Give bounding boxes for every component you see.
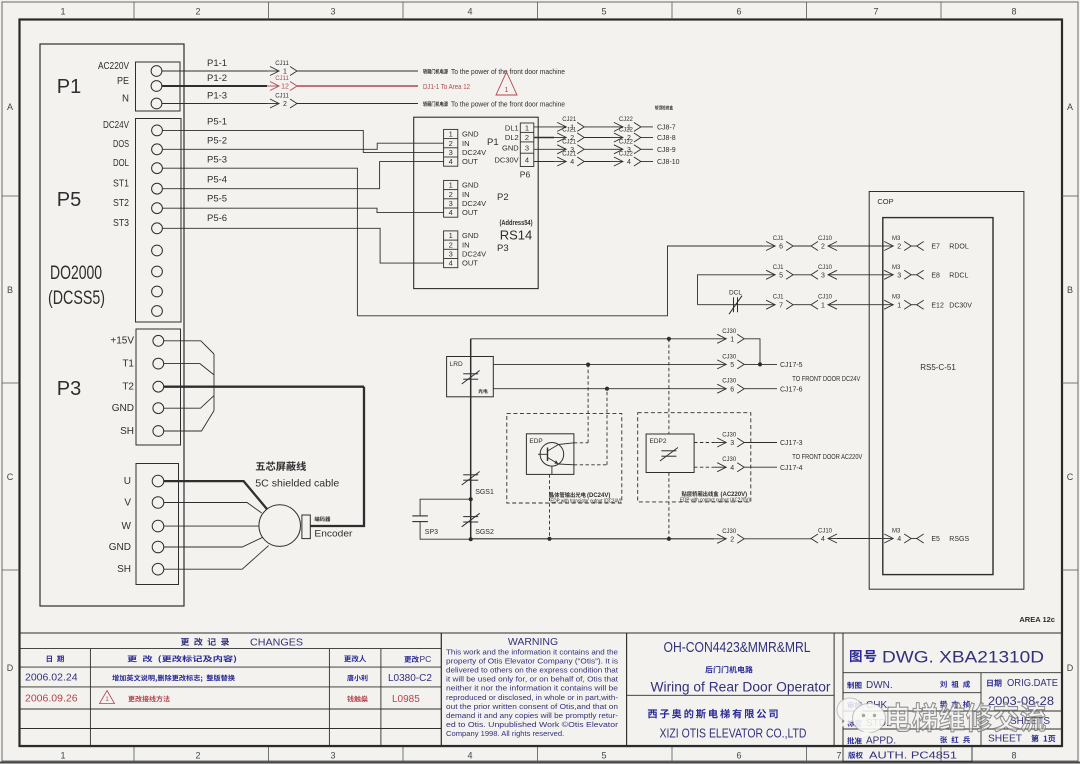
- changes row2 date: [25, 693, 78, 705]
- dwg auth text: [848, 752, 863, 759]
- wire P1-3 to text: [297, 103, 418, 105]
- changes row2 person: [347, 696, 368, 703]
- svg-text:2: 2: [730, 536, 734, 543]
- svg-text:CJ21: CJ21: [562, 128, 577, 134]
- title cell divider: [627, 694, 835, 696]
- svg-text:L0985: L0985: [392, 694, 420, 705]
- label CJ8-10: [657, 159, 680, 166]
- connector CJ21 pin4: [554, 152, 584, 167]
- label E7: [931, 244, 940, 251]
- label P1-1: [207, 58, 227, 69]
- svg-text:C: C: [7, 472, 14, 482]
- changes col header 日期: [47, 655, 64, 662]
- label P5-1: [207, 117, 227, 128]
- junction dot EDP2 bottom: [667, 537, 671, 541]
- svg-text:CJ30: CJ30: [722, 379, 737, 385]
- wire CJ10 to M3 row E7: [837, 245, 881, 247]
- wire CJ1-CJ10 row E12: [793, 304, 811, 306]
- terminal circle P5 spare: [152, 286, 163, 297]
- svg-text:EDP with contact output (AC220: EDP with contact output (AC220V): [680, 498, 750, 504]
- svg-text:SHEET: SHEET: [988, 734, 1022, 745]
- RS14 label P2: [497, 192, 509, 203]
- cable bundle +15V: [164, 341, 214, 354]
- side border zone ticks: [2, 196, 1078, 570]
- connector M3 pin4: [881, 529, 911, 544]
- chevron at E5: [917, 534, 924, 543]
- connector CJ21 pin1: [554, 117, 584, 132]
- svg-text:WARNING: WARNING: [508, 636, 558, 648]
- terminal block P5: [136, 119, 182, 323]
- svg-text:CJ30: CJ30: [722, 529, 737, 535]
- label 光电: [478, 389, 487, 394]
- connector CJ22 pin4: [611, 152, 641, 167]
- svg-text:P1-3: P1-3: [207, 91, 227, 102]
- caption EDP chinese: [549, 492, 585, 497]
- svg-text:IN: IN: [462, 190, 470, 199]
- connector CJ1 pin5: [763, 265, 793, 280]
- label +15V: [110, 336, 134, 347]
- svg-text:3: 3: [449, 250, 453, 259]
- svg-text:CJ17-4: CJ17-4: [780, 465, 803, 472]
- svg-text:W: W: [122, 521, 132, 532]
- svg-text:4: 4: [525, 156, 529, 165]
- top column numbers 1-8: [60, 7, 1016, 17]
- svg-text:4: 4: [821, 536, 825, 543]
- label SH: [120, 426, 134, 437]
- label E12: [931, 302, 944, 309]
- svg-text:Company 1998. All rights rese: Company 1998. All rights reserved.: [446, 729, 564, 738]
- svg-text:delivered to others on the exp: delivered to others on the express condi…: [446, 666, 619, 675]
- wire CJ10 to M3 row E8: [837, 274, 881, 276]
- label GND: [112, 403, 134, 414]
- chevron at E12: [917, 300, 924, 309]
- svg-text:ed to Otis. Unpublished: ed to Otis. Unpublished Work ©Otis Eleva…: [446, 720, 619, 729]
- svg-text:Wiring of Rear Door Operator: Wiring of Rear Door Operator: [651, 680, 832, 695]
- svg-text:CJ10: CJ10: [818, 265, 833, 271]
- label P3: [57, 378, 81, 400]
- label top-right box (chinese): [655, 105, 673, 110]
- wire CJ30-2 to CJ10-4: [744, 538, 811, 540]
- RS14 P6 label DL2: [505, 133, 519, 142]
- label W (motor): [122, 521, 132, 532]
- svg-text:4: 4: [467, 751, 472, 761]
- wire W: [164, 525, 259, 527]
- dwg box: [843, 633, 1062, 747]
- svg-text:DJ1-1 To Area 12: DJ1-1 To Area 12: [423, 82, 470, 91]
- svg-text:demand it and any copies will: demand it and any copies will be promptl…: [446, 711, 619, 720]
- transistor EDP (opto output): [538, 443, 564, 467]
- label COP: [877, 197, 893, 206]
- svg-text:DO2000: DO2000: [50, 263, 102, 284]
- label E5: [931, 536, 940, 543]
- svg-text:7: 7: [779, 302, 783, 309]
- svg-text:DWG. XBA21310D: DWG. XBA21310D: [882, 648, 1044, 667]
- svg-text:DCL: DCL: [729, 290, 742, 297]
- svg-text:T2: T2: [122, 382, 134, 393]
- terminal circle P5 spare: [152, 245, 163, 256]
- label ST2: [113, 197, 129, 209]
- encoder circle: [259, 505, 301, 547]
- RS14 connector P6 pins: [520, 123, 534, 167]
- svg-text:P3: P3: [57, 378, 81, 400]
- connector CJ22 pin2: [611, 128, 641, 143]
- caption EDP english: [550, 499, 621, 505]
- terminal circle P1-3: [151, 98, 162, 109]
- svg-text:T1: T1: [122, 358, 134, 369]
- RS14 P1 pin2 label IN: [462, 139, 470, 148]
- connector CJ1 pin6: [763, 236, 793, 251]
- svg-text:EDP with transistor output (DC: EDP with transistor output (DC24V): [550, 499, 621, 505]
- terminal circle P5 DOS: [152, 144, 163, 155]
- svg-text:DC24V: DC24V: [103, 119, 129, 131]
- svg-text:4: 4: [449, 208, 453, 217]
- dashed wire EDP upper vertical: [587, 365, 589, 443]
- dashed wire EDP pin upper: [574, 442, 588, 444]
- caption EDP2 chinese: [682, 491, 719, 497]
- chevron at E7: [917, 242, 924, 251]
- dashed wire EDP2 bottom: [668, 473, 670, 539]
- changes row2 triangle: [100, 691, 115, 704]
- wire to CJ1-6 (E7 row): [357, 246, 763, 316]
- wire CJ21-CJ22 pin1: [584, 126, 611, 128]
- connector CJ30 pin5: [714, 354, 744, 369]
- svg-text:8: 8: [1011, 7, 1016, 17]
- svg-text:6: 6: [736, 751, 741, 761]
- sheet bottom edge: [0, 762, 1080, 764]
- svg-text:E12: E12: [931, 302, 944, 309]
- svg-text:CJ8-9: CJ8-9: [657, 147, 676, 154]
- label P5: [57, 189, 81, 211]
- dwg sig row CHK.: [848, 700, 970, 711]
- connector CJ22 pin1: [611, 117, 641, 132]
- wire P5-1 to RS14 P1.3: [163, 130, 444, 152]
- changes col header 更改人: [344, 655, 366, 662]
- title OH-CON4423: [664, 639, 811, 656]
- connector M3 pin3: [881, 265, 911, 280]
- terminal circle V: [152, 497, 164, 509]
- label EDP: [529, 438, 542, 445]
- wire P5-3 down: [163, 168, 358, 316]
- svg-text:4: 4: [730, 465, 734, 472]
- label DC30V: [949, 302, 972, 309]
- svg-text:CJ10: CJ10: [818, 295, 833, 301]
- label Encoder: [314, 529, 352, 540]
- terminal circle P5 ST3: [152, 223, 163, 234]
- junction dot EDP bottom: [547, 537, 551, 541]
- wire T2-encoder thick: [310, 387, 364, 526]
- connector CJ10 pin4: [811, 529, 837, 544]
- wire P5-5 to RS14 P2.4: [163, 208, 444, 212]
- svg-text:CJ17-5: CJ17-5: [780, 362, 803, 369]
- svg-text:XIZI OTIS ELEVATOR CO.,LTD: XIZI OTIS ELEVATOR CO.,LTD: [660, 727, 807, 741]
- svg-text:P1-2: P1-2: [207, 73, 227, 84]
- dwg sig row APPD.: [847, 736, 970, 747]
- top border zone ticks: [134, 2, 941, 20]
- bottom column number 7: [836, 751, 841, 761]
- svg-text:GND: GND: [462, 181, 479, 190]
- svg-text:M3: M3: [892, 295, 901, 301]
- label E8: [931, 272, 940, 279]
- svg-text:CJ8-8: CJ8-8: [657, 135, 676, 142]
- label RDOL: [949, 244, 969, 251]
- svg-text:ST3: ST3: [113, 217, 129, 229]
- svg-text:CJ22: CJ22: [619, 152, 634, 158]
- RS14 P6 label DC30V: [495, 156, 519, 165]
- connector M3 pin1: [881, 295, 911, 310]
- svg-text:4: 4: [467, 7, 472, 17]
- svg-text:DL1: DL1: [505, 123, 519, 132]
- svg-text:OUT: OUT: [462, 157, 478, 166]
- label RS5-C-51: [920, 363, 956, 372]
- svg-text:1: 1: [505, 87, 509, 94]
- svg-text:L0380-C2: L0380-C2: [388, 673, 432, 684]
- label P1: [57, 76, 81, 98]
- svg-text:reproduced or disclosed, in wh: reproduced or disclosed, in whole or in …: [446, 693, 618, 702]
- svg-text:CJ8-10: CJ8-10: [657, 159, 680, 166]
- connector M3 pin2: [881, 236, 911, 251]
- label AC220V: [98, 60, 129, 72]
- svg-text:(Address54): (Address54): [500, 218, 533, 227]
- label CJ17-6: [780, 387, 803, 394]
- svg-text:EDP2: EDP2: [650, 438, 667, 445]
- svg-text:4: 4: [897, 536, 901, 543]
- wire P1-1 to text: [297, 70, 418, 72]
- svg-text:SH: SH: [120, 426, 134, 437]
- terminal circle P3 GND: [153, 403, 164, 414]
- label RSGS: [949, 536, 969, 543]
- svg-text:6: 6: [736, 7, 741, 17]
- wire P6 pin3 row: [534, 148, 554, 150]
- svg-text:EDP: EDP: [529, 438, 542, 445]
- label P1-2: [207, 73, 227, 84]
- terminal circle P1-1: [151, 66, 162, 77]
- warning title: [508, 636, 558, 648]
- svg-text:P1: P1: [487, 137, 499, 148]
- svg-text:out the prior written consent: out the prior written consent of Otis,an…: [446, 702, 618, 711]
- wire CJ22 pin3 out: [641, 148, 653, 150]
- dashed wire EDP pin lower: [574, 464, 607, 466]
- label to front door power (top): [423, 69, 448, 74]
- svg-text:C: C: [1067, 472, 1074, 482]
- label LRD: [450, 361, 463, 368]
- svg-text:P5-3: P5-3: [207, 155, 227, 166]
- svg-text:CJ17-6: CJ17-6: [780, 387, 803, 394]
- svg-text:3: 3: [525, 143, 529, 152]
- RS14 label RS14: [500, 228, 533, 243]
- svg-text:3: 3: [897, 272, 901, 279]
- connector CJ21 pin3: [554, 139, 584, 154]
- RS14 P3 pin4 label OUT: [462, 259, 478, 268]
- terminal circle P5 spare: [152, 266, 163, 277]
- watermark logo and text: [837, 698, 1045, 739]
- svg-text:ORIG.DATE: ORIG.DATE: [1007, 677, 1058, 689]
- svg-text:1: 1: [821, 302, 825, 309]
- svg-text:RS14: RS14: [500, 228, 533, 243]
- svg-text:CJ30: CJ30: [722, 329, 737, 335]
- svg-text:1: 1: [525, 123, 529, 132]
- COP box: [869, 192, 1024, 590]
- svg-text:N: N: [122, 92, 129, 104]
- RS14 connector P1 pins: [444, 129, 458, 166]
- wire CJ22 pin2 out: [641, 137, 653, 139]
- svg-text:DWN.: DWN.: [866, 680, 893, 691]
- svg-text:CJ30: CJ30: [722, 457, 737, 463]
- contact SGS1: [462, 472, 480, 486]
- svg-text:4: 4: [449, 157, 453, 166]
- label DC24V: [103, 119, 129, 131]
- svg-text:COP: COP: [877, 197, 893, 206]
- bottom column numbers: [60, 751, 1016, 761]
- svg-text:2: 2: [195, 7, 200, 17]
- label 图号: [850, 650, 876, 662]
- label T2: [122, 382, 134, 393]
- changes row1 person: [347, 674, 367, 681]
- svg-text:P5-2: P5-2: [207, 136, 227, 147]
- changes row1 pc: [388, 673, 432, 684]
- cable bundle T1: [164, 364, 214, 375]
- svg-text:OUT: OUT: [462, 208, 478, 217]
- svg-text:E7: E7: [931, 244, 940, 251]
- wire CJ30-6 out: [744, 388, 777, 390]
- warning text: [446, 648, 619, 738]
- svg-text:RDOL: RDOL: [949, 244, 969, 251]
- RS14 P2 pin4 label OUT: [462, 208, 478, 217]
- label PE: [117, 75, 129, 87]
- svg-text:+15V: +15V: [110, 336, 134, 347]
- label N: [122, 92, 129, 104]
- changes row2 desc: [128, 695, 169, 702]
- wire LRD to CJ30-6: [493, 388, 714, 390]
- terminal circle P1-2: [151, 81, 162, 92]
- changes row1 date: [25, 672, 78, 684]
- label P1-3: [207, 91, 227, 102]
- svg-text:DC24V: DC24V: [462, 250, 486, 259]
- svg-text:M3: M3: [892, 265, 901, 271]
- dwg date column line: [980, 673, 982, 747]
- connector CJ21 pin2: [554, 128, 584, 143]
- terminal circle SH: [152, 563, 164, 575]
- label SH (motor): [117, 564, 131, 575]
- svg-text:CJ11: CJ11: [275, 76, 289, 82]
- svg-text:B: B: [7, 285, 13, 295]
- changes header CHANGES: [250, 637, 303, 649]
- svg-text:SGS2: SGS2: [475, 529, 494, 536]
- svg-text:GND: GND: [502, 143, 519, 152]
- module RS14 box: [414, 117, 539, 288]
- svg-text:DC30V: DC30V: [949, 302, 972, 309]
- svg-text:RSGS: RSGS: [949, 536, 969, 543]
- svg-text:B: B: [1067, 285, 1073, 295]
- svg-text:AREA 12c: AREA 12c: [1019, 615, 1055, 624]
- svg-text:2: 2: [283, 101, 287, 108]
- svg-text:V: V: [124, 498, 131, 509]
- RS14 P3 pin3 label DC24V: [462, 250, 486, 259]
- module RS5-C-51 box: [883, 218, 993, 575]
- svg-text:3: 3: [730, 440, 734, 447]
- right row letters A-D: [1067, 102, 1074, 673]
- title XIZI OTIS ELEVATOR CO.,LTD: [660, 727, 807, 741]
- svg-text:A: A: [1067, 102, 1073, 112]
- svg-text:5: 5: [730, 362, 734, 369]
- svg-text:SGS1: SGS1: [475, 489, 494, 496]
- terminal block motor: [136, 464, 179, 585]
- label P5-3: [207, 155, 227, 166]
- terminal circle P5 DOL: [152, 163, 163, 174]
- terminal circle P5 ST2: [152, 203, 163, 214]
- svg-text:CJ30: CJ30: [722, 433, 737, 439]
- label EDP2: [650, 438, 667, 445]
- svg-text:4: 4: [627, 159, 631, 166]
- RS14 P1 pin3 label DC24V: [462, 148, 486, 157]
- junction dot EDP lower: [605, 387, 609, 391]
- svg-text:E5: E5: [931, 536, 940, 543]
- wire M3 pin3 stub: [911, 274, 917, 276]
- svg-text:3: 3: [449, 148, 453, 157]
- svg-text:DC24V: DC24V: [462, 199, 486, 208]
- junction dot CJ17-5: [758, 362, 762, 366]
- svg-text:GND: GND: [109, 542, 131, 553]
- label DWG. XBA21310D: [882, 648, 1044, 667]
- wire T2 thick: [164, 386, 364, 388]
- connector CJ11 pin1: [267, 61, 297, 76]
- title cell box: [627, 633, 835, 747]
- changes header 更改记录: [181, 638, 229, 646]
- wire CJ10-4 to M3-4: [837, 538, 881, 540]
- connector CJ10 row E12: [811, 295, 837, 310]
- label DCL: [729, 290, 742, 297]
- svg-text:P1-1: P1-1: [207, 58, 227, 69]
- terminal circle U: [152, 475, 164, 487]
- contact EDP2: [660, 448, 678, 462]
- svg-text:P5-6: P5-6: [207, 213, 227, 224]
- svg-text:3: 3: [449, 199, 453, 208]
- svg-text:ST1: ST1: [113, 178, 129, 190]
- RS14 P6 label GND: [502, 143, 519, 152]
- terminal block P3: [136, 329, 181, 445]
- svg-text:P3: P3: [497, 243, 509, 254]
- label 5C shielded cable: [255, 478, 339, 490]
- svg-text:(DCSS5): (DCSS5): [48, 288, 105, 309]
- wire P5-2 to RS14 P1.2: [163, 143, 444, 149]
- svg-text:property of Otis Elevator Com: property of Otis Elevator Company (“Otis…: [446, 657, 618, 666]
- svg-text:P5-5: P5-5: [207, 194, 227, 205]
- svg-text:1: 1: [449, 130, 453, 139]
- controller box DO2000: [40, 44, 184, 606]
- connector CJ30 pin2: [714, 529, 744, 544]
- svg-text:OUT: OUT: [462, 259, 478, 268]
- svg-text:CJ22: CJ22: [619, 117, 634, 123]
- svg-text:M3: M3: [892, 529, 901, 535]
- label ST1: [113, 178, 129, 190]
- dashed wire EDP lower vertical: [606, 389, 608, 465]
- label 五芯屏蔽线: [256, 461, 306, 471]
- svg-text:1: 1: [449, 181, 453, 190]
- svg-text:CJ17-3: CJ17-3: [780, 440, 803, 447]
- svg-text:6: 6: [730, 386, 734, 393]
- svg-text:4: 4: [449, 259, 453, 268]
- dwg date 2003-08-28: [988, 696, 1054, 708]
- svg-text:OH-CON4423&MMR&MRL: OH-CON4423&MMR&MRL: [664, 639, 811, 656]
- svg-text:neither it nor the informatio: neither it nor the information it contai…: [446, 684, 618, 693]
- wire CJ21-CJ22 pin2: [584, 137, 611, 139]
- wire LRD to CJ30-5: [493, 364, 714, 366]
- wire CJ21-CJ22 pin4: [584, 161, 611, 163]
- svg-text:3: 3: [821, 272, 825, 279]
- wire EDP collector stub: [559, 443, 574, 445]
- label SP3: [425, 529, 438, 536]
- wire U thick: [164, 481, 267, 509]
- connector CJ11 pin12 (red): [267, 76, 297, 91]
